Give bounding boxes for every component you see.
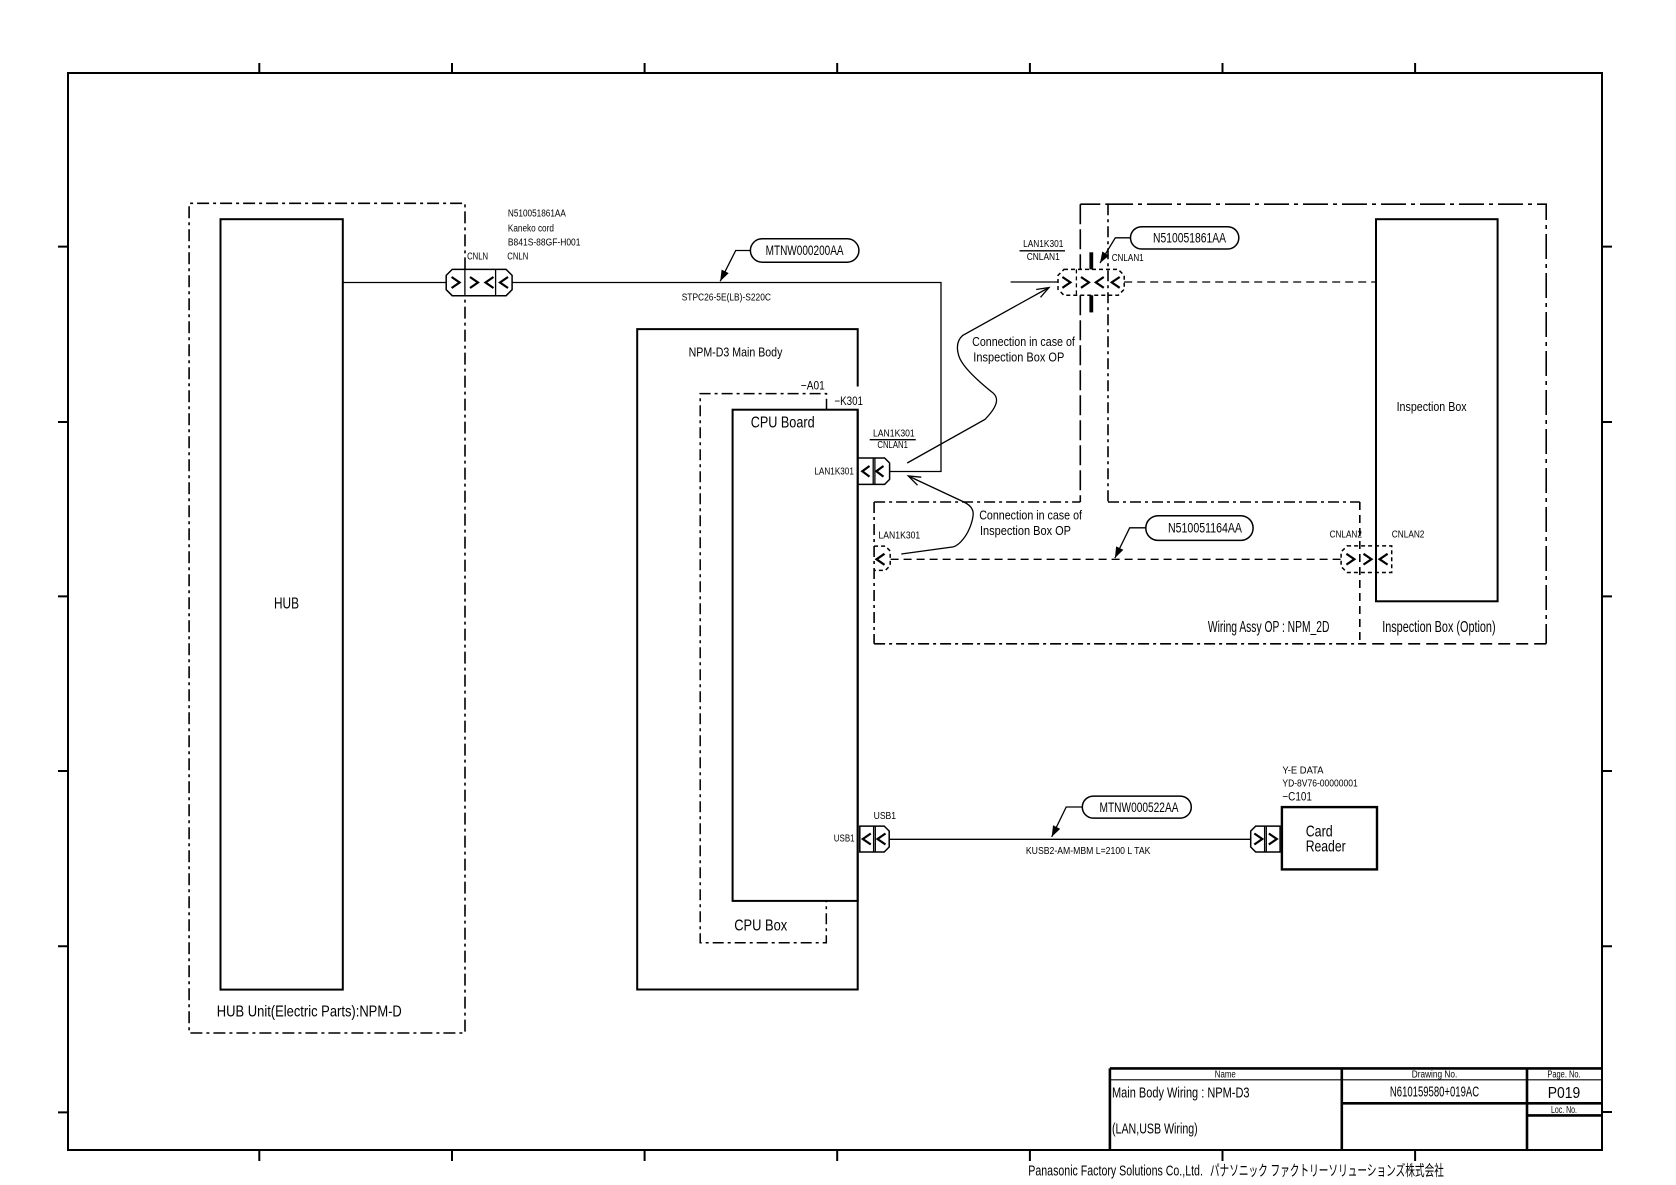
leader upper (S-curve with open arrowhead) [907,288,1049,464]
svg-text:LAN1K301: LAN1K301 [1023,239,1064,250]
svg-text:STPC26-5E(LB)-S220C: STPC26-5E(LB)-S220C [682,292,771,303]
title block texts [1112,1070,1581,1138]
svg-text:−C101: −C101 [1282,791,1312,803]
svg-text:Wiring Assy OP : NPM_2D: Wiring Assy OP : NPM_2D [1208,619,1330,636]
connector Card Reader [1251,826,1280,852]
bulkhead bars at CNLAN1 [1089,252,1093,312]
svg-text:MTNW000200AA: MTNW000200AA [766,243,844,258]
svg-text:USB1: USB1 [834,834,855,845]
label cable N510051861AA Kaneko cord B841S-88GF-H001 [508,209,581,249]
label KUSB2-AM-MBM L=2100 L TAK [1026,846,1151,857]
label CNLN (right) [507,252,528,263]
svg-text:Inspection Box (Option): Inspection Box (Option) [1382,619,1495,636]
svg-text:Inspection Box OP: Inspection Box OP [973,349,1064,364]
svg-text:P019: P019 [1548,1085,1581,1102]
label Y-E DATA / YD-8V76-00000001 [1282,766,1358,790]
svg-text:CPU Board: CPU Board [751,415,815,432]
Inspection Box (solid) [1376,219,1498,601]
note Connection in case of Inspection Box OP (upper) [972,334,1075,364]
label -K301 [834,394,863,408]
footer company text [1028,1162,1444,1179]
NPM-D3 Main Body box [637,329,858,989]
connector USB1 on CPU board [860,826,889,852]
wire CNLAN1 to Inspection Box (dashed) [1124,281,1376,283]
svg-text:B841S-88GF-H001: B841S-88GF-H001 [508,238,581,249]
svg-text:Reader: Reader [1306,839,1347,856]
label CNLAN2 (right) [1392,529,1425,540]
net label LAN1K301/CNLAN1 left of CNLAN1 [1020,239,1066,263]
HUB unit enclosure (dashed) [189,203,465,1033]
label USB1 (top) [874,811,897,822]
svg-text:MTNW000522AA: MTNW000522AA [1100,800,1179,815]
svg-text:Loc. No.: Loc. No. [1551,1105,1577,1116]
wire HUB to CNLN [343,282,446,284]
Card Reader box [1282,807,1377,869]
svg-text:CNLAN1: CNLAN1 [1112,253,1144,264]
label USB1 (left) [834,834,855,845]
net label LAN1K301/CNLAN1 above connector [870,429,916,451]
wire LAN1K301 to CNLAN2 (dashed) [891,558,1342,560]
svg-text:CNLAN2: CNLAN2 [1392,529,1425,540]
CPU Board box [733,410,858,901]
svg-text:−A01: −A01 [801,379,825,393]
label LAN1K301 (left of connector) [814,467,854,478]
svg-text:N510051164AA: N510051164AA [1168,521,1242,536]
balloon MTNW000200AA [717,239,859,283]
svg-text:HUB Unit(Electric Parts):NPM-D: HUB Unit(Electric Parts):NPM-D [217,1003,402,1020]
label CNLN (left) [467,252,488,263]
Inspection Box (Option) enclosure (dashed) [1080,204,1546,644]
svg-text:LAN1K301: LAN1K301 [814,467,854,478]
svg-text:YD-8V76-00000001: YD-8V76-00000001 [1282,778,1358,789]
label -A01 [801,379,825,393]
svg-text:Connection in case of: Connection in case of [979,508,1082,523]
svg-text:Panasonic Factory Solutions Co: Panasonic Factory Solutions Co.,Ltd.パナソニ… [1028,1162,1444,1179]
svg-text:Main Body Wiring : NPM-D3: Main Body Wiring : NPM-D3 [1112,1085,1250,1102]
label STPC26-5E(LB)-S220C [682,292,771,303]
wire CNLN to LAN1K301 [512,283,941,472]
svg-text:CNLAN1: CNLAN1 [877,440,908,451]
label -C101 [1282,791,1312,803]
balloon N510051164AA [1111,516,1253,560]
balloon MTNW000522AA [1048,796,1191,839]
connector LAN1K301 on CPU board [858,458,890,484]
svg-text:Drawing No.: Drawing No. [1412,1070,1458,1081]
CPU Box enclosure (dash-dot) [700,394,826,943]
svg-text:CNLN: CNLN [467,252,488,263]
svg-text:CNLAN1: CNLAN1 [1027,252,1060,263]
svg-text:KUSB2-AM-MBM L=2100 L TAK: KUSB2-AM-MBM L=2100 L TAK [1026,846,1151,857]
label CNLAN2 (left) [1330,529,1363,540]
svg-text:LAN1K301: LAN1K301 [873,429,915,440]
svg-text:CPU Box: CPU Box [734,917,787,934]
svg-text:(LAN,USB Wiring): (LAN,USB Wiring) [1112,1121,1198,1138]
svg-text:Connection in case of: Connection in case of [972,334,1075,349]
svg-text:N610159580+019AC: N610159580+019AC [1390,1084,1479,1101]
Wiring Assy OP enclosure (dash-dot) [874,204,1360,644]
svg-text:CNLAN2: CNLAN2 [1330,529,1363,540]
svg-text:N510051861AA: N510051861AA [1153,231,1226,246]
svg-text:Y-E DATA: Y-E DATA [1282,766,1323,777]
svg-text:Inspection Box OP: Inspection Box OP [980,523,1071,538]
svg-text:CNLN: CNLN [507,252,528,263]
HUB box [221,219,343,989]
wire USB1 to Card Reader [889,838,1250,840]
label Inspection Box (Option) [1382,619,1495,636]
leader lower (S-curve with open arrowhead) [901,476,973,554]
svg-text:Kaneko cord: Kaneko cord [508,224,554,235]
svg-text:−K301: −K301 [834,394,863,408]
svg-text:Inspection Box: Inspection Box [1397,399,1467,414]
svg-text:HUB: HUB [274,596,299,613]
label Wiring Assy OP : NPM_2D [1208,619,1330,636]
svg-text:Page. No.: Page. No. [1547,1070,1580,1081]
svg-text:Name: Name [1215,1070,1236,1081]
svg-text:N510051861AA: N510051861AA [508,209,566,220]
connector CNLN [446,269,512,295]
wire stub into CNLAN1 [1011,281,1058,283]
svg-text:USB1: USB1 [874,811,897,822]
connector LAN1K301 (optional, dashed) [874,531,920,571]
balloon N510051861AA [1097,227,1239,265]
label HUB Unit(Electric Parts):NPM-D [217,1003,402,1020]
note Connection in case of Inspection Box OP (lower) [979,508,1082,538]
svg-text:LAN1K301: LAN1K301 [879,531,921,542]
title block [1110,1068,1601,1150]
connector CNLAN2 (dashed) [1341,546,1392,573]
connector CNLAN1 (dashed) [1058,269,1124,295]
label CNLAN1 (right of bar) [1112,253,1144,264]
svg-text:NPM-D3 Main Body: NPM-D3 Main Body [689,345,783,360]
